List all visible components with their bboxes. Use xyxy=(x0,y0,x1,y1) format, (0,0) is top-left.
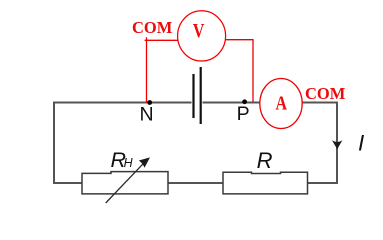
svg-text:H: H xyxy=(124,156,134,170)
svg-text:R: R xyxy=(257,148,273,173)
svg-text:COM: COM xyxy=(305,84,346,103)
svg-text:COM: COM xyxy=(132,18,173,37)
svg-text:P: P xyxy=(237,103,250,125)
svg-text:A: A xyxy=(275,92,287,114)
svg-text:V: V xyxy=(193,20,205,42)
svg-text:N: N xyxy=(140,103,154,125)
svg-text:I: I xyxy=(358,131,364,156)
